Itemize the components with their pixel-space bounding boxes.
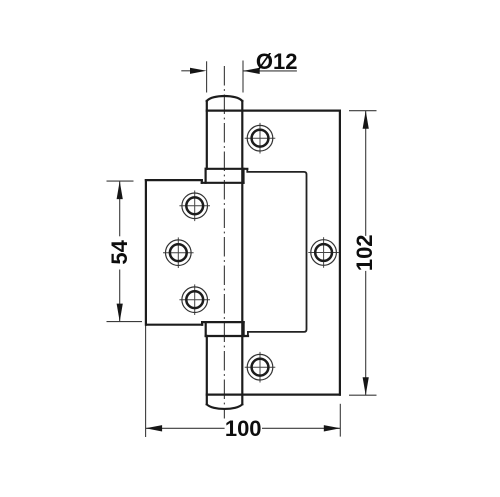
svg-text:Ø12: Ø12 <box>256 49 298 74</box>
svg-text:54: 54 <box>107 239 132 264</box>
svg-text:102: 102 <box>352 234 377 271</box>
svg-text:100: 100 <box>225 416 262 441</box>
